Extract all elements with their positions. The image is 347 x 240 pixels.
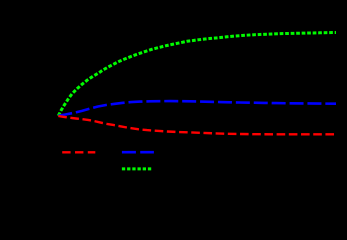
legend: red dashed sample — [62, 151, 95, 153]
red dashed curve (declining) — [58, 116, 336, 134]
legend: blue dashed sample — [122, 151, 154, 154]
green dotted curve (rising, saturating) — [58, 33, 336, 116]
blue dashed curve (slight rise then flat) — [58, 101, 336, 116]
legend: green dotted sample — [122, 167, 151, 170]
